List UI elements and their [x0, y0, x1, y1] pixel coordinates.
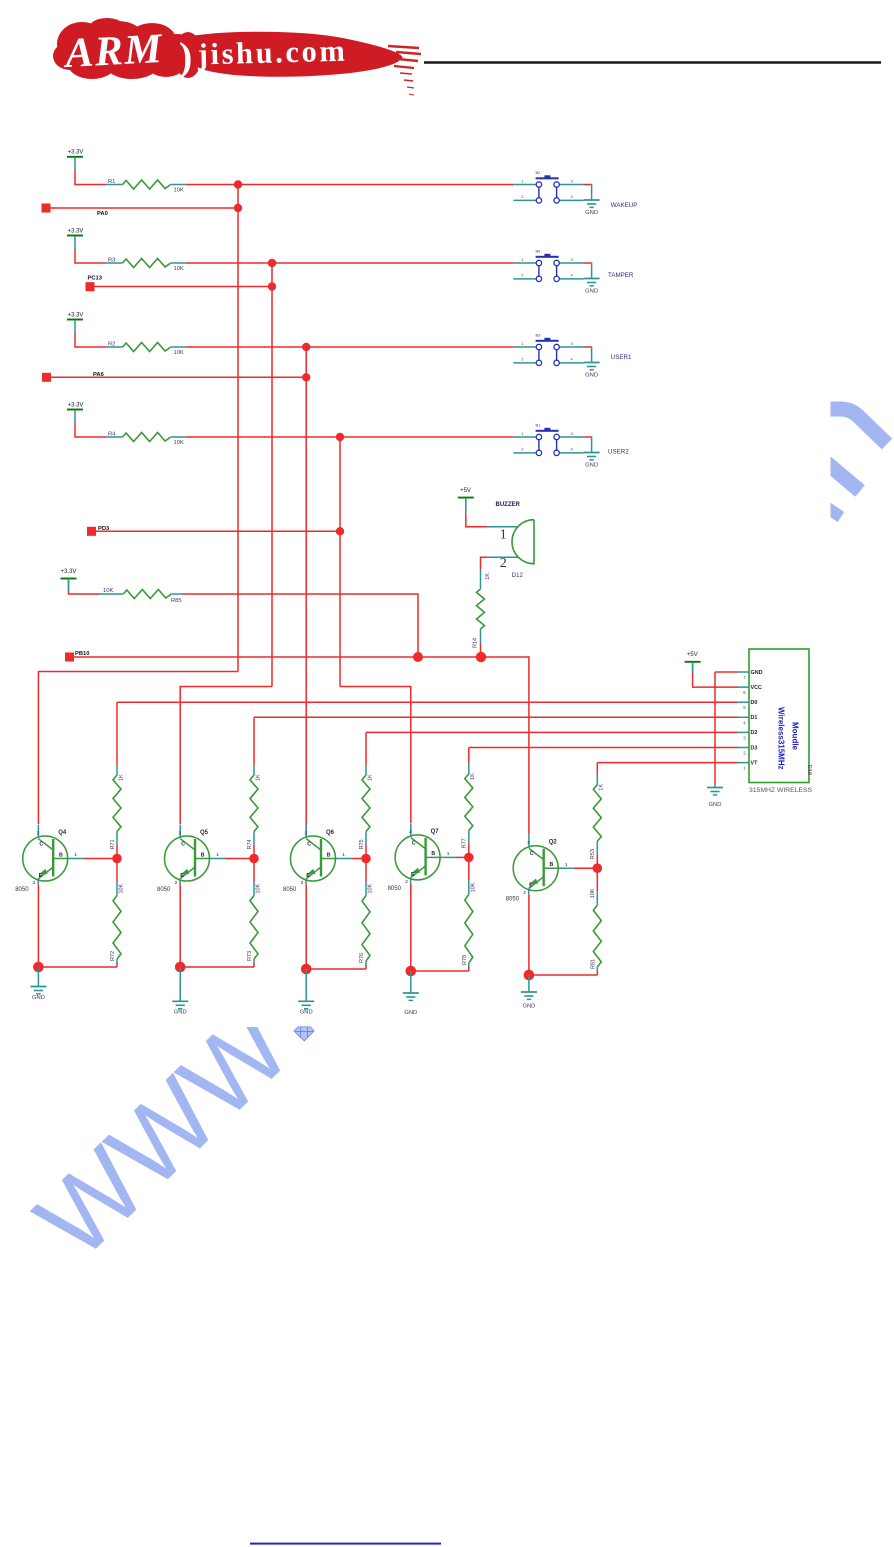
svg-text:3: 3 [37, 830, 40, 836]
svg-text:GND: GND [751, 670, 763, 676]
svg-text:R1: R1 [108, 179, 115, 185]
svg-text:R72: R72 [110, 951, 116, 961]
svg-text:jishu.com: jishu.com [196, 34, 347, 72]
svg-text:PB10: PB10 [75, 651, 90, 657]
svg-text:10K: 10K [174, 440, 184, 446]
svg-text:1K: 1K [367, 774, 373, 781]
svg-text:R85: R85 [171, 598, 182, 604]
svg-text:R3: R3 [108, 258, 115, 264]
svg-text:2: 2 [500, 556, 507, 571]
svg-text:10K: 10K [174, 266, 184, 272]
svg-text:USER2: USER2 [608, 449, 629, 456]
svg-text:VCC: VCC [751, 685, 762, 691]
svg-text:): ) [179, 34, 192, 79]
svg-text:10K: 10K [174, 350, 184, 356]
svg-text:TAMPER: TAMPER [608, 272, 634, 279]
svg-text:Q6: Q6 [326, 830, 335, 836]
svg-text:GND: GND [585, 210, 598, 216]
svg-text:GND: GND [585, 463, 598, 469]
svg-text:ARM: ARM [61, 26, 164, 77]
svg-text:GND: GND [32, 995, 45, 1001]
svg-text:C: C [412, 840, 416, 846]
svg-text:1: 1 [74, 852, 77, 858]
svg-text:10K: 10K [590, 888, 596, 898]
svg-text:C: C [181, 842, 185, 848]
svg-text:E: E [411, 872, 415, 878]
svg-text:GND: GND [174, 1010, 187, 1016]
svg-text:R74: R74 [247, 839, 253, 849]
svg-text:R81: R81 [591, 959, 597, 969]
svg-text:C: C [530, 851, 534, 857]
svg-text:B3: B3 [536, 333, 542, 338]
svg-text:8050: 8050 [388, 886, 402, 892]
svg-text:+5V: +5V [460, 488, 471, 494]
svg-text:R77: R77 [462, 838, 468, 848]
svg-text:WAKEUP: WAKEUP [611, 202, 638, 209]
svg-text:+3.3V: +3.3V [68, 150, 84, 156]
svg-text:10K: 10K [470, 882, 476, 892]
svg-text:E: E [180, 873, 184, 879]
svg-text:1: 1 [565, 862, 568, 868]
svg-text:10K: 10K [368, 883, 374, 893]
svg-text:+3.3V: +3.3V [61, 569, 77, 575]
svg-text:8050: 8050 [15, 887, 29, 893]
svg-text:D3: D3 [751, 745, 758, 751]
svg-text:USER1: USER1 [611, 354, 632, 361]
svg-text:GND: GND [522, 1004, 535, 1010]
svg-text:R73: R73 [247, 951, 253, 961]
svg-text:3: 3 [527, 840, 530, 846]
svg-text:1K: 1K [470, 773, 476, 780]
svg-text:C: C [39, 842, 43, 848]
svg-text:BUZZER: BUZZER [496, 502, 521, 508]
svg-text:Q4: Q4 [58, 830, 67, 836]
svg-text:8050: 8050 [157, 887, 171, 893]
svg-text:10K: 10K [103, 588, 113, 594]
svg-text:D2: D2 [751, 730, 758, 736]
svg-text:R71: R71 [110, 839, 116, 849]
svg-text:R75: R75 [359, 839, 365, 849]
svg-text:D12: D12 [512, 573, 524, 579]
svg-text:PC13: PC13 [88, 276, 103, 282]
svg-text:2: 2 [523, 890, 526, 896]
svg-text:C: C [307, 842, 311, 848]
svg-text:3: 3 [409, 829, 412, 835]
svg-text:1K: 1K [255, 774, 261, 781]
svg-text:1: 1 [447, 851, 450, 857]
svg-text:B: B [550, 862, 554, 868]
svg-text:B: B [327, 852, 331, 858]
svg-text:+3.3V: +3.3V [68, 312, 84, 318]
svg-text:8050: 8050 [506, 897, 520, 903]
svg-text:3: 3 [304, 830, 307, 836]
svg-text:10K: 10K [174, 188, 184, 194]
svg-text:B1: B1 [536, 423, 542, 428]
svg-text:R4: R4 [108, 432, 116, 438]
svg-text:2: 2 [175, 880, 178, 886]
svg-text:+3.3V: +3.3V [68, 402, 84, 408]
svg-text:3: 3 [178, 830, 181, 836]
svg-text:D0: D0 [751, 700, 758, 706]
svg-text:PA0: PA0 [97, 211, 108, 217]
svg-text:2: 2 [405, 879, 408, 885]
svg-text:8050: 8050 [283, 887, 297, 893]
svg-text:GND: GND [709, 802, 722, 808]
svg-text:VT: VT [751, 760, 759, 766]
svg-text:315MHZ WIRELESS: 315MHZ WIRELESS [749, 787, 813, 794]
svg-text:GND: GND [300, 1010, 313, 1016]
svg-text:Wireless315MHz: Wireless315MHz [777, 707, 786, 770]
svg-text:GND: GND [585, 373, 598, 379]
svg-text:+3.3V: +3.3V [68, 228, 84, 234]
svg-text:B: B [201, 852, 205, 858]
svg-text:R2: R2 [108, 342, 115, 348]
svg-text:10K: 10K [256, 883, 262, 893]
svg-text:B4: B4 [536, 249, 542, 254]
svg-text:10K: 10K [119, 883, 125, 893]
svg-text:1: 1 [216, 852, 219, 858]
svg-text:GND: GND [585, 289, 598, 295]
svg-text:GND: GND [404, 1010, 417, 1016]
svg-text:R14: R14 [473, 638, 479, 648]
svg-text:R53: R53 [590, 849, 596, 859]
svg-text:2: 2 [33, 880, 36, 886]
svg-text:R76: R76 [359, 953, 365, 963]
svg-text:1K: 1K [118, 774, 124, 781]
svg-text:R78: R78 [462, 955, 468, 965]
svg-text:1K: 1K [599, 784, 605, 791]
svg-text:E: E [306, 873, 310, 879]
svg-text:D18: D18 [806, 765, 812, 776]
svg-text:Q5: Q5 [200, 830, 209, 836]
svg-text:PD3: PD3 [98, 526, 110, 532]
svg-text:Moudle: Moudle [791, 722, 800, 751]
svg-text:1K: 1K [485, 573, 491, 580]
svg-text:E: E [39, 873, 43, 879]
svg-text:B: B [59, 852, 63, 858]
svg-text:Q2: Q2 [549, 840, 558, 846]
svg-text:1: 1 [500, 528, 507, 543]
svg-text:B: B [431, 851, 435, 857]
svg-text:1: 1 [342, 852, 345, 858]
svg-text:D1: D1 [751, 715, 758, 721]
svg-text:PA6: PA6 [93, 372, 105, 378]
svg-text:2: 2 [301, 880, 304, 886]
svg-text:Q7: Q7 [431, 829, 440, 835]
svg-text:B2: B2 [536, 170, 542, 175]
svg-text:+5V: +5V [687, 652, 698, 658]
svg-text:E: E [529, 883, 533, 889]
